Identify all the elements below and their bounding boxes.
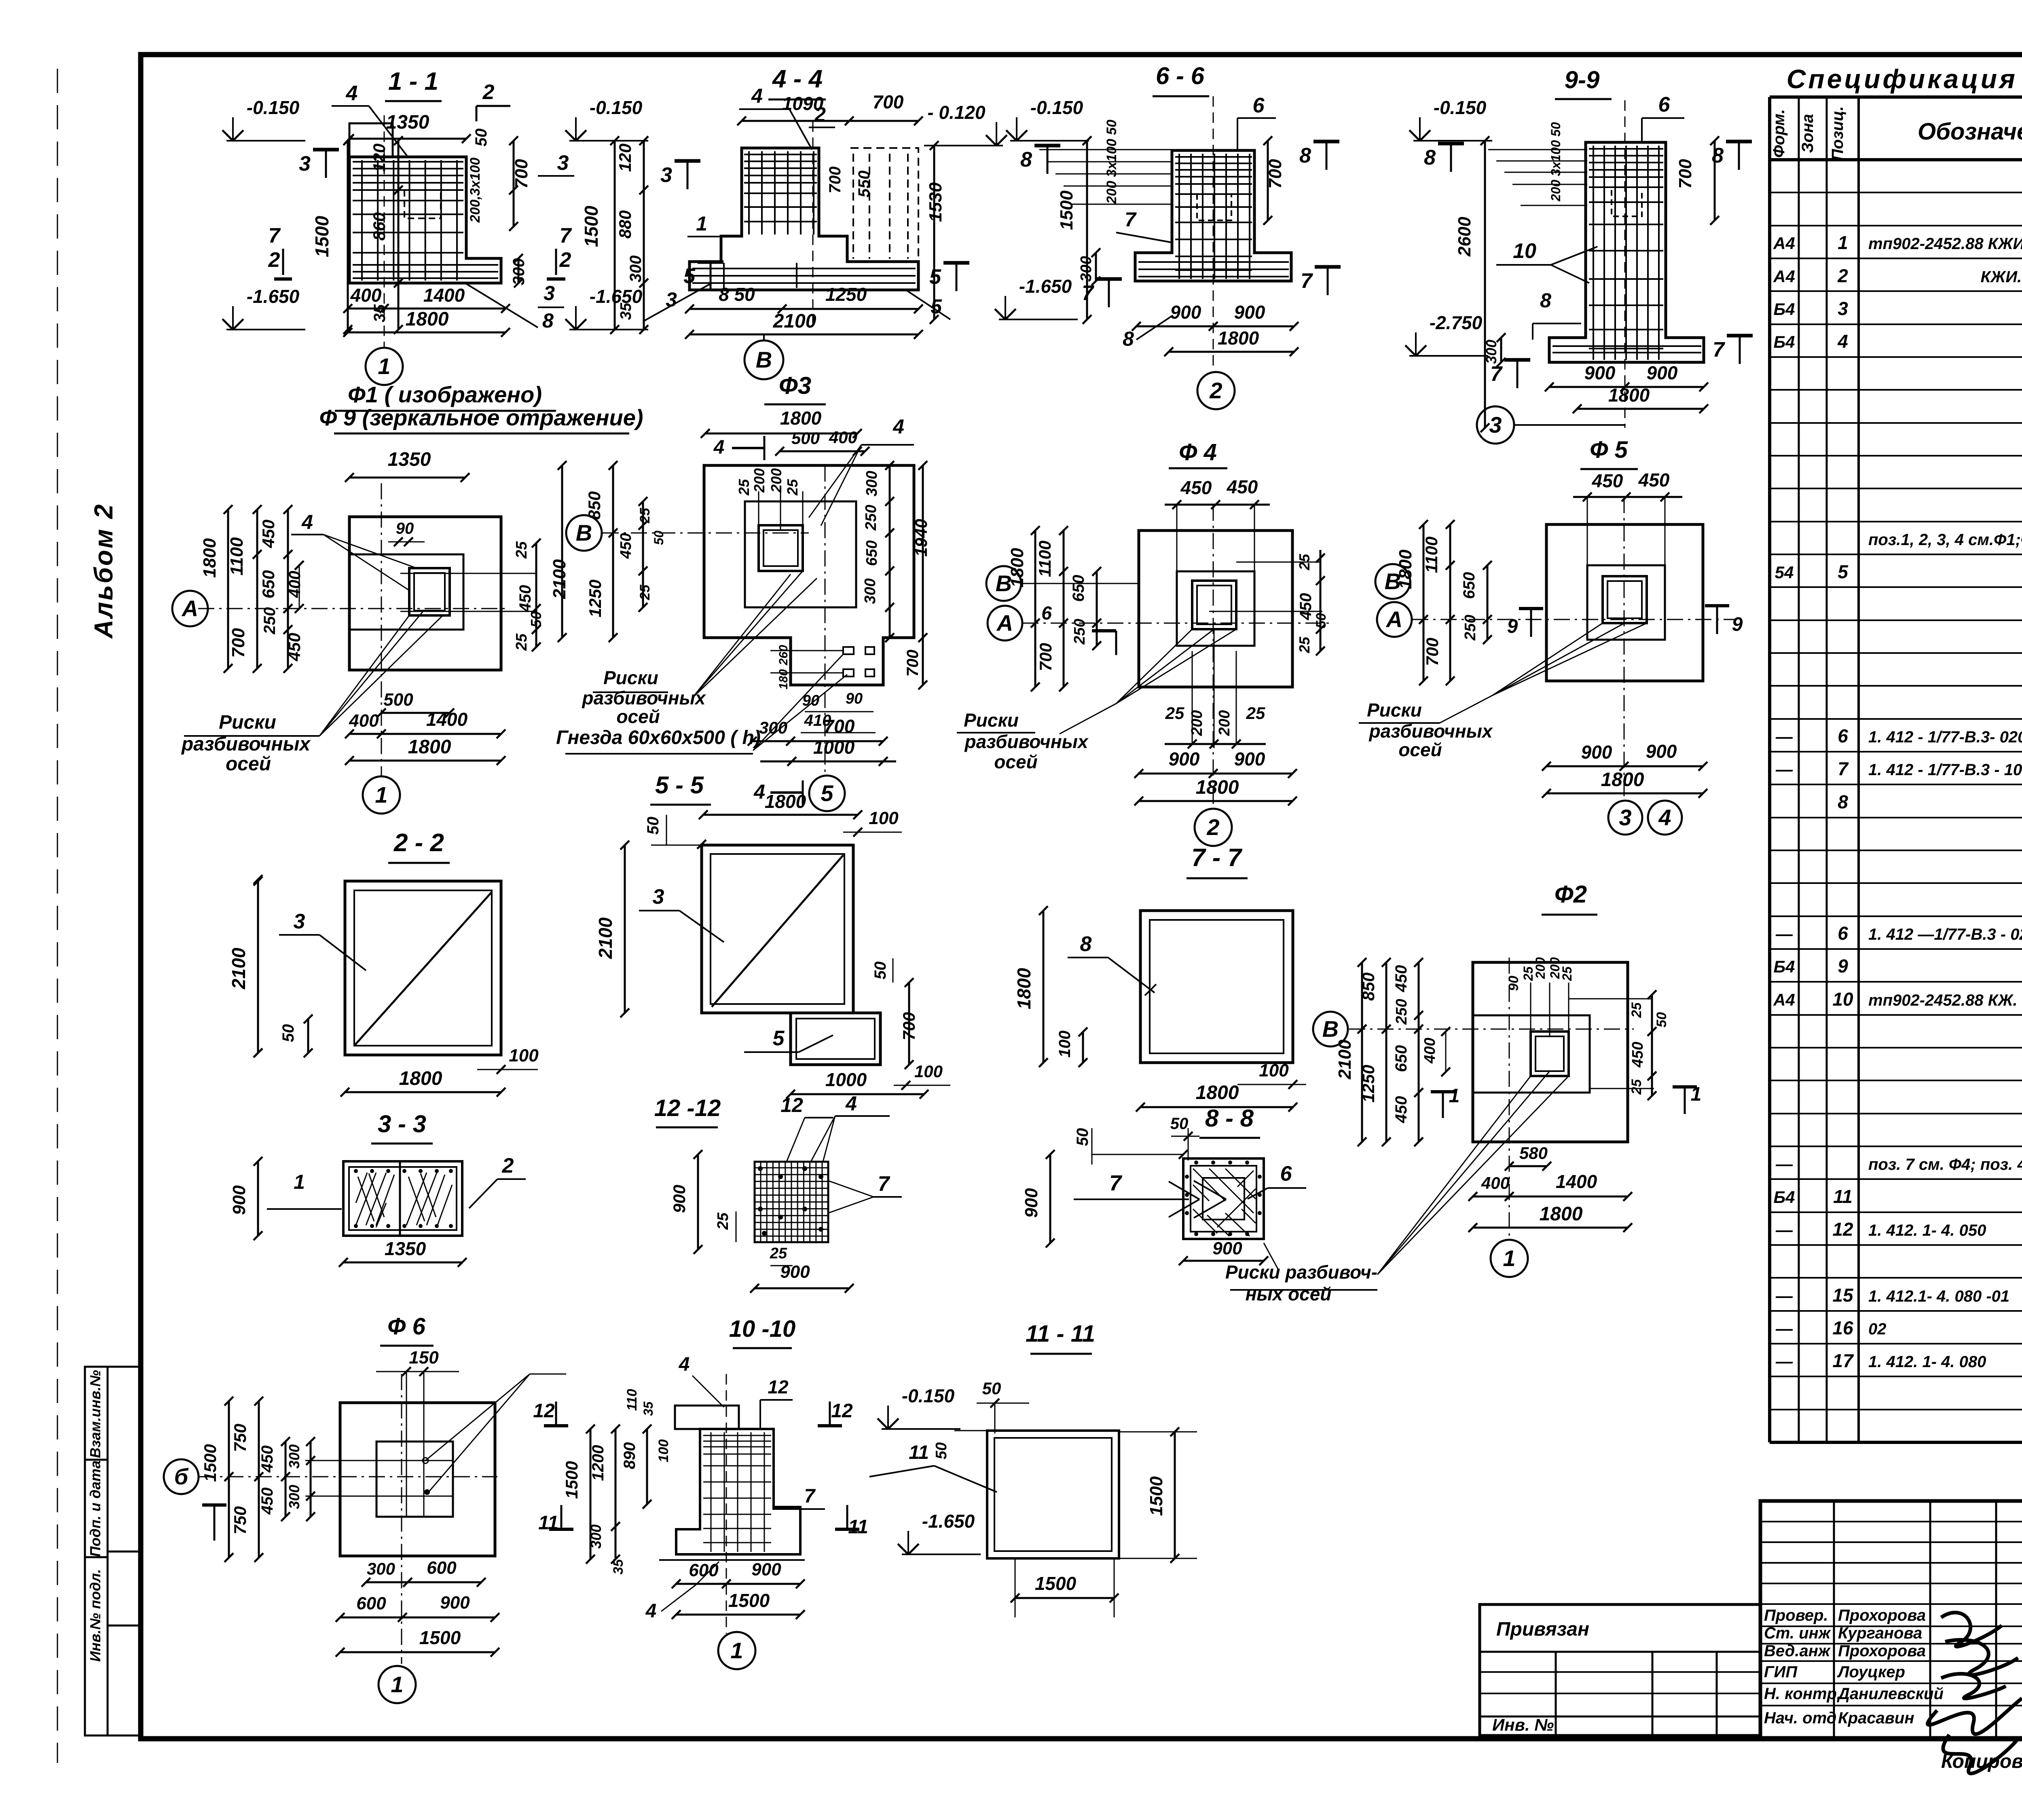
svg-text:1800: 1800 — [406, 309, 449, 330]
section 10-10 axis bubble 1 — [718, 1632, 755, 1669]
svg-text:300: 300 — [510, 258, 528, 285]
svg-text:-1.650: -1.650 — [922, 1511, 975, 1532]
svg-text:900: 900 — [1169, 748, 1200, 769]
section 5-5 diagonal — [712, 855, 843, 1007]
section mark 3 left — [325, 150, 327, 178]
bottom dims 900 900 9-9 — [1549, 386, 1704, 388]
svg-text:450: 450 — [1592, 470, 1623, 491]
axis bubble V — [763, 334, 765, 340]
svg-text:7: 7 — [878, 1172, 890, 1196]
svg-text:120: 120 — [370, 144, 389, 172]
svg-text:400: 400 — [349, 711, 379, 731]
svg-text:700: 700 — [512, 159, 531, 189]
svg-text:25: 25 — [513, 541, 530, 559]
plan F1 top dim 1350 — [349, 477, 465, 479]
svg-text:850: 850 — [585, 491, 604, 520]
svg-text:900: 900 — [440, 1593, 470, 1613]
svg-text:1500: 1500 — [1057, 190, 1077, 230]
svg-text:25: 25 — [513, 633, 530, 651]
svg-text:—: — — [1775, 1220, 1793, 1239]
section 2-2 ticks top — [254, 877, 262, 886]
svg-text:50: 50 — [1170, 1115, 1189, 1133]
section 9-9 mesh — [1589, 146, 1663, 360]
svg-text:Спецификация к монолитным ф: Спецификация к монолитным фундаментам — [1787, 64, 2022, 94]
svg-text:100: 100 — [914, 1062, 943, 1081]
svg-text:Гнезда 60х60х500 ( h): Гнезда 60х60х500 ( h) — [556, 727, 761, 748]
svg-text:Риски: Риски — [1367, 700, 1422, 721]
section 8-8 dim 900 left — [1049, 1154, 1051, 1243]
svg-text:50: 50 — [472, 129, 490, 147]
svg-text:1000: 1000 — [813, 737, 855, 758]
svg-text:25: 25 — [1629, 1079, 1644, 1095]
section 12-12 dim 900 left — [697, 1154, 699, 1249]
sect 8 right — [1326, 142, 1328, 170]
svg-text:1800: 1800 — [1396, 550, 1415, 589]
bottom dim 1800 6-6 — [1169, 351, 1294, 353]
svg-text:-0.150: -0.150 — [247, 97, 300, 118]
svg-text:900: 900 — [229, 1185, 249, 1215]
svg-text:1500: 1500 — [201, 1444, 220, 1482]
plan F5 axis letters — [1375, 564, 1410, 599]
svg-text:450: 450 — [1392, 1096, 1410, 1124]
section 3-3 box — [343, 1161, 462, 1236]
section 1-1 axis — [384, 115, 385, 347]
svg-text:КЖИ. 00. 00. 03. 00: КЖИ. 00. 00. 03. 00 — [1981, 268, 2022, 286]
svg-text:1200: 1200 — [589, 1445, 607, 1481]
svg-text:200: 200 — [1189, 710, 1206, 736]
plan F5 column — [1603, 576, 1647, 623]
bottom dims 400 1400 — [348, 308, 505, 310]
svg-text:2 - 2: 2 - 2 — [393, 829, 444, 857]
section 12-12 dim 900 bottom — [755, 1287, 849, 1289]
svg-text:1800: 1800 — [1608, 385, 1650, 406]
svg-text:700: 700 — [824, 716, 855, 737]
svg-text:разбивочных: разбивочных — [581, 687, 706, 708]
svg-text:Взам.инв.№: Взам.инв.№ — [87, 1370, 104, 1458]
svg-text:1800: 1800 — [1540, 1203, 1583, 1225]
svg-text:ных осей: ных осей — [1246, 1283, 1332, 1304]
sect 8 left — [1047, 146, 1049, 174]
plan F4 axis 2 vertical — [1213, 505, 1214, 807]
svg-text:25: 25 — [1629, 1002, 1644, 1018]
svg-text:12: 12 — [768, 1376, 789, 1397]
svg-text:17: 17 — [1832, 1350, 1854, 1371]
section 4-4 mesh — [744, 151, 817, 235]
section 5-5 lower box — [791, 1013, 880, 1065]
svg-text:Риски: Риски — [964, 710, 1019, 731]
section 8-8 dim 900 bottom — [1183, 1260, 1264, 1262]
svg-text:—: — — [1775, 760, 1793, 779]
svg-text:2100: 2100 — [1335, 1040, 1355, 1080]
svg-text:900: 900 — [1646, 741, 1677, 762]
svg-text:700: 700 — [1265, 159, 1285, 189]
dims left 1500 880 120 — [614, 141, 616, 330]
plan F5 outer slab — [1546, 524, 1703, 681]
svg-text:50: 50 — [1654, 1012, 1669, 1027]
svg-text:50: 50 — [651, 531, 666, 545]
svg-text:450: 450 — [259, 520, 278, 548]
dim 300 9-9 — [1500, 338, 1502, 362]
svg-text:3: 3 — [653, 885, 664, 909]
svg-text:Подп. и дата: Подп. и дата — [87, 1461, 104, 1557]
svg-text:8: 8 — [1080, 932, 1092, 956]
svg-text:Инв. №: Инв. № — [1492, 1715, 1554, 1734]
svg-text:А: А — [1385, 607, 1402, 632]
svg-text:650: 650 — [1392, 1045, 1410, 1072]
svg-text:8: 8 — [1540, 289, 1551, 312]
plan F6 axis vertical — [401, 1374, 402, 1664]
svg-text:1800: 1800 — [1007, 548, 1027, 588]
svg-text:400: 400 — [286, 571, 304, 598]
svg-text:1530: 1530 — [926, 182, 945, 222]
svg-text:Вед.анж: Вед.анж — [1764, 1642, 1831, 1660]
svg-text:5: 5 — [929, 265, 941, 289]
svg-text:4: 4 — [679, 1354, 690, 1375]
svg-text:300: 300 — [1078, 256, 1095, 281]
svg-text:1800: 1800 — [1196, 1082, 1239, 1103]
section 2-2 square — [345, 881, 501, 1055]
svg-text:700: 700 — [1675, 159, 1695, 189]
svg-text:200 3х100 50: 200 3х100 50 — [1548, 122, 1563, 202]
svg-text:12: 12 — [533, 1400, 555, 1422]
plan F3 left dims — [612, 465, 614, 638]
plan F5 left dims — [1423, 524, 1425, 681]
svg-text:Данилевский: Данилевский — [1837, 1685, 1944, 1703]
svg-text:200: 200 — [768, 468, 785, 493]
svg-text:8: 8 — [542, 309, 554, 332]
svg-text:1500: 1500 — [419, 1627, 461, 1648]
svg-text:450: 450 — [1629, 1042, 1646, 1067]
svg-text:А4: А4 — [1773, 234, 1795, 253]
svg-text:25: 25 — [715, 1212, 732, 1230]
svg-text:7: 7 — [1301, 269, 1313, 293]
plan F3 column — [759, 525, 803, 571]
svg-text:1400: 1400 — [1556, 1171, 1597, 1192]
section 3-3 dim 900 — [257, 1161, 259, 1236]
svg-text:35: 35 — [641, 1401, 656, 1416]
svg-text:6: 6 — [1658, 93, 1671, 116]
svg-text:500: 500 — [383, 690, 413, 710]
svg-text:35: 35 — [611, 1559, 626, 1575]
section 9-9 outline — [1549, 142, 1704, 362]
plan F2 column — [1531, 1032, 1569, 1076]
svg-text:1400: 1400 — [423, 285, 465, 306]
plan F1 right dims — [535, 543, 537, 647]
svg-text:осей: осей — [226, 753, 271, 775]
bottom dim 1800 — [348, 332, 505, 334]
svg-text:50: 50 — [933, 1442, 950, 1459]
svg-text:3: 3 — [557, 151, 569, 175]
svg-text:1. 412 - 1/77-В.3- 020: 1. 412 - 1/77-В.3- 020 — [1868, 728, 2022, 746]
svg-text:тп902-2452.88 КЖ. И: тп902-2452.88 КЖ. И — [1868, 991, 2022, 1009]
svg-text:—: — — [1775, 1286, 1793, 1305]
svg-text:—: — — [1775, 1154, 1793, 1173]
plan F4 top dims 450 450 — [1165, 504, 1270, 506]
section 5-5 axis bubble 5 top — [809, 776, 845, 811]
svg-text:1: 1 — [730, 1638, 743, 1663]
svg-text:Б4: Б4 — [1773, 300, 1795, 319]
plan F6 left dims — [228, 1401, 230, 1558]
svg-text:Ф2: Ф2 — [1555, 881, 1587, 908]
top dim 1350 — [349, 138, 466, 140]
svg-text:450: 450 — [258, 1488, 276, 1515]
section 6-6 axis — [1213, 96, 1214, 372]
svg-text:600: 600 — [356, 1594, 386, 1613]
svg-text:580: 580 — [1519, 1144, 1548, 1163]
svg-text:А: А — [996, 610, 1013, 636]
svg-text:200: 200 — [751, 468, 768, 493]
svg-text:25: 25 — [1560, 966, 1574, 981]
svg-text:разбивочных: разбивочных — [964, 731, 1089, 752]
svg-text:25: 25 — [784, 479, 801, 496]
svg-text:2: 2 — [482, 80, 495, 104]
svg-text:300: 300 — [1483, 340, 1500, 364]
section 12-12 mesh box — [755, 1162, 828, 1242]
plan F2 left dims — [1361, 962, 1363, 1142]
dim 1530 right — [933, 146, 935, 319]
svg-text:8 - 8: 8 - 8 — [1205, 1105, 1254, 1132]
specification table grid — [1770, 95, 2022, 99]
svg-text:1800: 1800 — [408, 736, 451, 758]
section 5-5 dim 2100 — [624, 845, 626, 1013]
section 9-9 axis — [1624, 100, 1626, 428]
plan F6 inner step — [376, 1442, 453, 1517]
svg-text:3: 3 — [299, 152, 311, 175]
svg-text:поз.1, 2, 3, 4 см.Ф1;Ф2: поз.1, 2, 3, 4 см.Ф1;Ф2 — [1868, 531, 2022, 549]
svg-text:90: 90 — [1506, 976, 1521, 991]
svg-text:1. 412 - 1/77-В.3 - 100: 1. 412 - 1/77-В.3 - 100 — [1868, 761, 2022, 779]
svg-text:Курганова: Курганова — [1838, 1624, 1922, 1642]
svg-text:-1.650: -1.650 — [590, 286, 643, 307]
svg-text:700: 700 — [228, 628, 248, 658]
svg-text:А4: А4 — [1773, 267, 1795, 286]
section 6-6 mesh — [1175, 154, 1252, 279]
svg-text:А: А — [181, 596, 198, 621]
plan F6 outer slab — [340, 1403, 495, 1556]
plan F1 axis 1 vertical — [381, 483, 382, 776]
svg-text:7 - 7: 7 - 7 — [1191, 844, 1243, 872]
svg-text:1. 412.1- 4. 080 -01: 1. 412.1- 4. 080 -01 — [1868, 1287, 2009, 1305]
svg-text:осей: осей — [1398, 739, 1442, 760]
section 7-7 dim 1800 left — [1043, 911, 1045, 1063]
svg-text:2600: 2600 — [1455, 217, 1474, 257]
plan F6 axis b — [164, 1459, 199, 1494]
svg-text:1: 1 — [1449, 1085, 1460, 1107]
svg-text:12: 12 — [1832, 1219, 1853, 1240]
svg-text:8: 8 — [1424, 146, 1436, 169]
dims 120 860 35 left — [398, 141, 400, 330]
svg-text:450: 450 — [618, 533, 635, 559]
svg-text:15: 15 — [1832, 1285, 1854, 1306]
section 10-10 bottom dims — [676, 1583, 800, 1585]
svg-text:Лоуцкер: Лоуцкер — [1837, 1663, 1905, 1681]
plan F3 right dims — [889, 465, 891, 638]
svg-text:700: 700 — [826, 167, 844, 194]
svg-text:Ф3: Ф3 — [779, 372, 811, 399]
svg-text:7: 7 — [1838, 758, 1849, 779]
svg-text:11: 11 — [909, 1442, 929, 1463]
section 2-2 diagonal — [354, 892, 492, 1046]
svg-text:35: 35 — [618, 302, 635, 320]
svg-text:1100: 1100 — [227, 537, 247, 575]
svg-text:6: 6 — [1838, 725, 1848, 746]
plan F2 axis bubble V — [1313, 1012, 1348, 1046]
elevation -0.150 9-9 — [1413, 140, 1492, 142]
plan F6 grid lines — [305, 1460, 453, 1461]
section 11-11 square — [987, 1431, 1119, 1558]
svg-text:6: 6 — [1041, 602, 1052, 624]
section 10-10 outline — [676, 1429, 800, 1554]
svg-text:12: 12 — [780, 1094, 803, 1116]
section 10-10 mesh — [703, 1432, 771, 1552]
svg-text:700: 700 — [899, 1012, 918, 1040]
svg-text:Прохорова: Прохорова — [1838, 1607, 1926, 1624]
section 10-10 elevation -0.150 — [882, 1428, 960, 1430]
section 3-3 chevron hatch left — [356, 1173, 394, 1227]
svg-text:300: 300 — [367, 1559, 395, 1578]
svg-text:—: — — [1775, 924, 1793, 943]
svg-text:4 - 4: 4 - 4 — [772, 65, 823, 93]
svg-text:1500: 1500 — [1146, 1476, 1166, 1516]
svg-text:В: В — [576, 520, 592, 545]
svg-text:1100: 1100 — [1422, 537, 1441, 573]
svg-text:3: 3 — [660, 163, 672, 187]
svg-text:100: 100 — [509, 1046, 539, 1065]
elevation -0.150 for 4-4 — [569, 140, 648, 142]
section 5-5 dim 1800 top — [703, 814, 858, 816]
svg-text:600: 600 — [427, 1558, 457, 1578]
svg-text:1 - 1: 1 - 1 — [388, 68, 438, 95]
section 10-10 base bottom plate — [659, 1559, 805, 1561]
svg-text:25: 25 — [1296, 636, 1313, 653]
svg-text:Нач. отд: Нач. отд — [1764, 1709, 1836, 1727]
plan F3 bolt sockets — [843, 647, 854, 654]
svg-text:3: 3 — [1619, 805, 1631, 830]
svg-text:1350: 1350 — [386, 112, 429, 133]
svg-text:2100: 2100 — [228, 947, 249, 989]
plan F4 outer slab — [1139, 531, 1292, 687]
svg-text:900: 900 — [780, 1262, 810, 1282]
hooks top-left 9-9 — [1488, 150, 1587, 205]
svg-text:6: 6 — [1838, 923, 1848, 944]
svg-text:—: — — [1775, 1319, 1793, 1338]
axis bubble 3 for 9-9 — [1477, 406, 1514, 444]
svg-text:-0.150: -0.150 — [590, 97, 643, 118]
section 6-6 anchor dashed — [1197, 194, 1231, 220]
plan F5 bottom dims — [1546, 765, 1703, 767]
svg-text:750: 750 — [231, 1506, 250, 1535]
svg-text:25: 25 — [637, 507, 653, 524]
elevation -2.750 — [1409, 355, 1488, 357]
plan F2 right dims — [1651, 995, 1653, 1096]
svg-text:—: — — [1775, 727, 1793, 746]
svg-text:-2.750: -2.750 — [1430, 312, 1483, 333]
svg-text:50: 50 — [279, 1024, 297, 1042]
svg-text:4: 4 — [753, 780, 765, 803]
svg-text:10 -10: 10 -10 — [729, 1316, 795, 1342]
svg-text:1940: 1940 — [912, 519, 931, 556]
svg-text:250: 250 — [1393, 999, 1410, 1025]
svg-text:900: 900 — [1584, 362, 1616, 383]
svg-text:7: 7 — [269, 224, 281, 247]
svg-text:2100: 2100 — [595, 917, 616, 959]
svg-text:700: 700 — [1036, 643, 1055, 671]
svg-text:3: 3 — [1838, 298, 1848, 319]
hooks top-left — [1039, 150, 1173, 204]
svg-text:Форм.: Форм. — [1770, 109, 1788, 158]
svg-text:10: 10 — [1513, 239, 1536, 263]
svg-text:180: 180 — [777, 669, 790, 689]
plan F2 bottom dims — [1509, 1165, 1547, 1167]
svg-text:1800: 1800 — [765, 791, 806, 812]
svg-text:3: 3 — [544, 282, 555, 304]
plan F4 right dims — [1320, 550, 1322, 651]
svg-text:Инв.№ подл.: Инв.№ подл. — [87, 1569, 104, 1661]
svg-text:700: 700 — [873, 91, 904, 112]
svg-text:Риски: Риски — [219, 712, 276, 733]
svg-text:54: 54 — [1775, 563, 1794, 582]
svg-text:-0.150: -0.150 — [1434, 97, 1487, 118]
svg-text:9: 9 — [1732, 614, 1743, 635]
svg-text:16: 16 — [1832, 1317, 1853, 1338]
svg-text:200,3х100: 200,3х100 — [467, 158, 483, 223]
section 2-2 dim 2100 — [257, 879, 259, 1053]
svg-text:3: 3 — [1489, 412, 1502, 438]
svg-text:6: 6 — [1253, 94, 1265, 117]
svg-text:90: 90 — [396, 520, 414, 537]
svg-text:11: 11 — [848, 1516, 868, 1538]
svg-text:1100: 1100 — [1035, 541, 1054, 577]
signature scrawls — [1941, 1613, 2002, 1647]
svg-text:900: 900 — [1647, 362, 1678, 383]
plan F4 left dims — [1034, 531, 1036, 687]
svg-text:4: 4 — [1658, 805, 1671, 830]
svg-text:1: 1 — [391, 1672, 403, 1697]
axis bubble 2 — [1197, 372, 1235, 409]
section 10-10 elevation -1.650 — [902, 1554, 981, 1555]
svg-text:90: 90 — [846, 690, 863, 707]
elevation -1.650 left — [226, 329, 305, 330]
svg-text:4: 4 — [1837, 331, 1848, 352]
svg-text:300: 300 — [627, 256, 645, 283]
plan F3 inner step — [745, 501, 856, 607]
sect 7 small left — [1516, 360, 1519, 388]
plan F2 outer slab — [1473, 962, 1628, 1142]
svg-text:1: 1 — [1503, 1245, 1515, 1271]
svg-text:850: 850 — [1359, 972, 1378, 1001]
plan F6 axis bubble 1 — [379, 1666, 416, 1703]
svg-text:4: 4 — [301, 511, 313, 533]
svg-text:300: 300 — [863, 471, 880, 496]
section 1-1 foundation outline — [349, 157, 501, 283]
svg-text:600: 600 — [689, 1560, 719, 1580]
svg-text:Копировал·: Копировал· — [1941, 1751, 2022, 1772]
svg-text:120: 120 — [615, 144, 635, 172]
plan F2 axis bubble 1 — [1491, 1240, 1528, 1277]
section 1-1 anchor dashed — [404, 190, 441, 218]
svg-text:700: 700 — [904, 650, 922, 677]
section 1-1 rebar mesh — [353, 160, 463, 281]
bottom dims 900 900 6-6 — [1136, 326, 1294, 328]
svg-text:300: 300 — [588, 1524, 604, 1549]
elevation -1.650 6-6 — [999, 319, 1078, 320]
plan F5 axis vertical — [1624, 497, 1625, 799]
svg-text:2: 2 — [1206, 814, 1219, 840]
section 8-8 hatch — [1193, 1169, 1256, 1236]
plan F3 axis B — [603, 533, 809, 534]
svg-text:Позиц.: Позиц. — [1829, 106, 1846, 161]
svg-text:450: 450 — [1227, 476, 1258, 497]
